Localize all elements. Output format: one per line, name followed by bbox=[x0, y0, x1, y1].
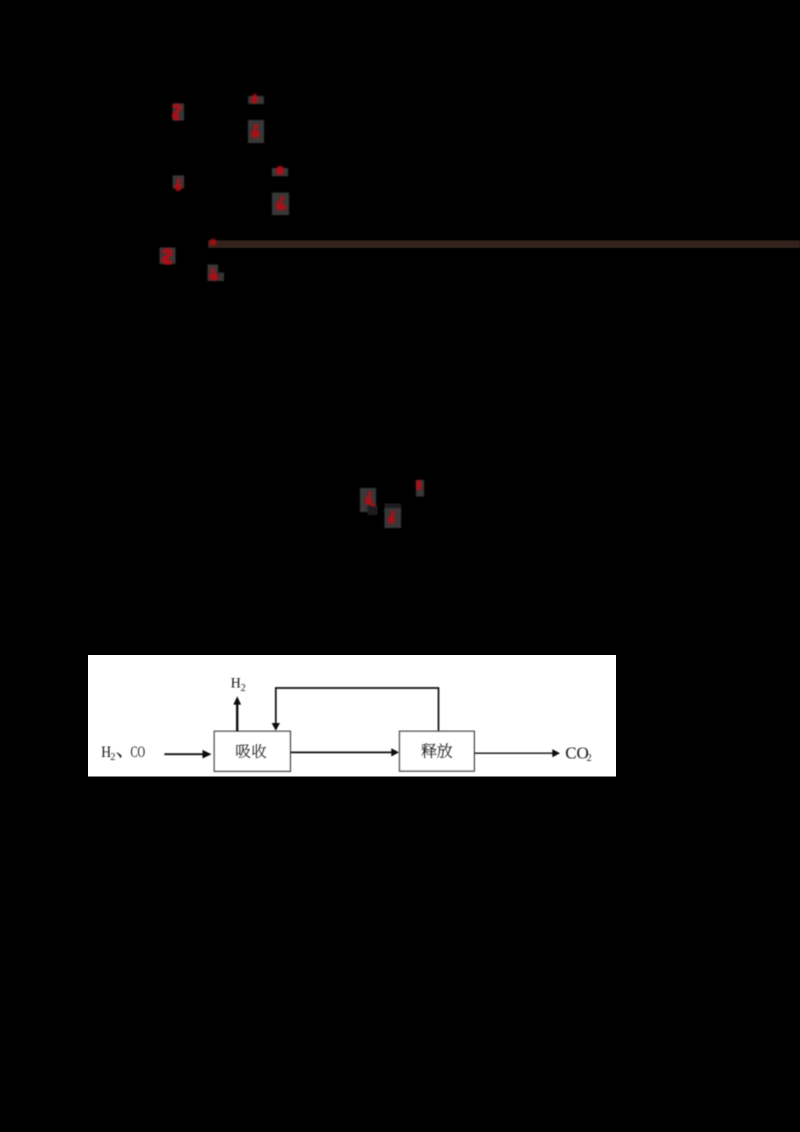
red mark 3 halo bbox=[248, 120, 264, 143]
recycle arrowhead into absorb box bbox=[272, 723, 280, 731]
red mark 5 bbox=[175, 178, 182, 191]
red mark 11 bbox=[388, 511, 395, 524]
red mark 10 dark patch bbox=[368, 506, 378, 516]
connector absorb to release bbox=[290, 748, 399, 756]
red mark 11 halo bbox=[385, 508, 402, 528]
red mark 10 bbox=[365, 491, 376, 505]
feed arrow bbox=[164, 750, 211, 759]
svg-text:CO: CO bbox=[131, 744, 146, 761]
red mark 5 halo bbox=[173, 175, 185, 188]
output arrow to CO2 bbox=[474, 749, 560, 757]
svg-text:CO: CO bbox=[565, 744, 589, 763]
red mark 4 halo bbox=[272, 168, 288, 176]
red mark 6 bbox=[276, 196, 287, 210]
label H2 output bbox=[231, 675, 246, 694]
red mark 3 bbox=[251, 124, 259, 139]
red mark 12 halo bbox=[416, 480, 424, 497]
white diagram panel bbox=[88, 655, 616, 777]
red mark 10 halo bbox=[360, 488, 376, 512]
svg-text:2: 2 bbox=[241, 683, 246, 694]
red mark 1 bbox=[173, 106, 180, 120]
red mark 2 bbox=[251, 93, 258, 103]
red underline streak bbox=[208, 240, 800, 248]
recycle wire: from release box top, up, left, down into absorb box bbox=[276, 688, 439, 731]
red mark 11 dark patch bbox=[385, 504, 402, 514]
red mark 6 halo bbox=[272, 193, 289, 216]
red mark 8 halo bbox=[160, 248, 176, 265]
red mark 12 vertical dash bbox=[416, 480, 421, 490]
svg-text:2: 2 bbox=[110, 752, 115, 763]
red mark 1 halo bbox=[173, 104, 185, 121]
text 吸收 bbox=[236, 744, 266, 758]
svg-text:2: 2 bbox=[587, 753, 592, 764]
H2 output arrow (up from absorb box) bbox=[233, 696, 241, 731]
red mark 8 bbox=[161, 250, 172, 263]
red mark 9 halo bbox=[208, 265, 219, 282]
svg-text:H: H bbox=[231, 675, 241, 692]
ideographic comma bbox=[116, 752, 121, 757]
red mark 7 dot at streak start bbox=[210, 239, 217, 246]
label CO2 bbox=[565, 744, 591, 764]
text 释放 bbox=[421, 743, 452, 758]
red mark 4 bbox=[276, 166, 284, 175]
red mark 2 halo bbox=[248, 96, 264, 104]
box release (释放) bbox=[400, 731, 475, 771]
box absorb (吸收) bbox=[214, 731, 290, 771]
red mark 9 bbox=[209, 268, 219, 281]
label H2 CO feed bbox=[101, 744, 115, 763]
